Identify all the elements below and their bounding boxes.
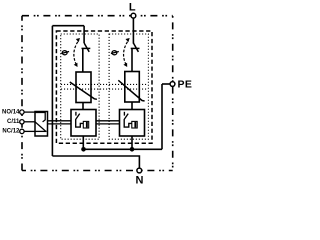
spark gap F2 box bbox=[120, 110, 145, 137]
wire MOV1 to gap box 1 bbox=[82, 103, 84, 110]
terminal NC/12 wire bbox=[24, 130, 35, 132]
junction node path2/PE bus bbox=[130, 147, 135, 152]
PE bus horizontal bbox=[84, 148, 163, 150]
spark gap F1 box bbox=[71, 110, 96, 137]
mechanical link double line segment B upper bbox=[96, 120, 120, 122]
wire N branch: left vertical bbox=[51, 26, 53, 156]
disconnector S1 contact bar bbox=[82, 47, 91, 49]
wire N branch: top horizontal from left column bbox=[52, 25, 84, 27]
wire N branch: bottom bus to N bbox=[52, 156, 139, 168]
svg-text:N: N bbox=[136, 174, 144, 186]
disconnector S2 contact bar bbox=[131, 47, 140, 49]
protection path 2 dotted box bbox=[109, 34, 148, 139]
terminal C/11 bbox=[20, 120, 24, 124]
svg-text:PE: PE bbox=[178, 79, 193, 91]
mechanical link dotted line upper bbox=[61, 83, 148, 85]
mechanical link double line segment A upper bbox=[48, 120, 72, 122]
mechanical link dotted line lower bbox=[61, 88, 148, 90]
device boundary chain line top edge bbox=[22, 15, 173, 17]
junction node path1/PE bus bbox=[81, 147, 86, 152]
terminal NC/12 bbox=[20, 129, 24, 133]
remote contact NC lead bbox=[35, 130, 47, 132]
wire gap box 2 to PE bus bbox=[131, 136, 133, 149]
PE bus vertical riser bbox=[161, 84, 163, 149]
disconnector S2 blade bbox=[133, 43, 138, 52]
thermal trip arc 2 bbox=[123, 38, 129, 67]
varistor MOV2 body bbox=[125, 72, 140, 103]
spark gap F1 symbol bbox=[76, 112, 89, 128]
thermal symbol theta 1 bbox=[61, 51, 69, 55]
varistor MOV1 body bbox=[76, 72, 91, 103]
disconnector S1 blade bbox=[84, 43, 89, 52]
thermal trip arc 1 bbox=[74, 38, 80, 67]
wire MOV2 to gap box 2 bbox=[131, 102, 133, 110]
remote contact blade bbox=[35, 122, 46, 132]
disconnector S1 wire upper bbox=[83, 26, 85, 43]
mechanical link double line segment A lower bbox=[48, 123, 72, 125]
wire L drop bbox=[132, 18, 134, 43]
remote contact NO post bbox=[35, 113, 45, 121]
varistor MOV1 diagonal bbox=[70, 82, 97, 99]
protection path 1 dotted box bbox=[61, 34, 99, 139]
remote contact NO tip tick bbox=[43, 120, 46, 122]
terminal C/11 wire bbox=[24, 121, 35, 123]
terminal NO/14 wire bbox=[24, 111, 35, 113]
disconnector S1 wire lower bbox=[82, 48, 84, 72]
terminal L bbox=[131, 13, 136, 18]
remote signalling contact box bbox=[35, 112, 48, 137]
terminal N bbox=[137, 168, 142, 173]
varistor MOV2 diagonal bbox=[118, 80, 144, 101]
svg-text:C/11: C/11 bbox=[7, 119, 20, 125]
svg-text:NO/14: NO/14 bbox=[2, 109, 20, 115]
disconnector S2 wire lower bbox=[131, 48, 133, 71]
thermal symbol theta 2 bbox=[111, 51, 119, 55]
svg-text:L: L bbox=[129, 1, 136, 13]
PE stub wire bbox=[162, 83, 170, 85]
mechanical link double line segment B lower bbox=[96, 123, 120, 125]
svg-text:NC/12: NC/12 bbox=[2, 129, 20, 135]
terminal PE bbox=[170, 82, 175, 87]
terminal NO/14 bbox=[20, 110, 24, 114]
wire gap box 1 to PE bus bbox=[82, 136, 84, 149]
device boundary chain line left edge bbox=[21, 16, 23, 171]
spark gap F2 symbol bbox=[124, 112, 137, 128]
device boundary chain line right edge bbox=[172, 16, 174, 171]
device boundary chain line bottom edge bbox=[22, 170, 173, 172]
SPD module dashed box bbox=[56, 31, 152, 143]
